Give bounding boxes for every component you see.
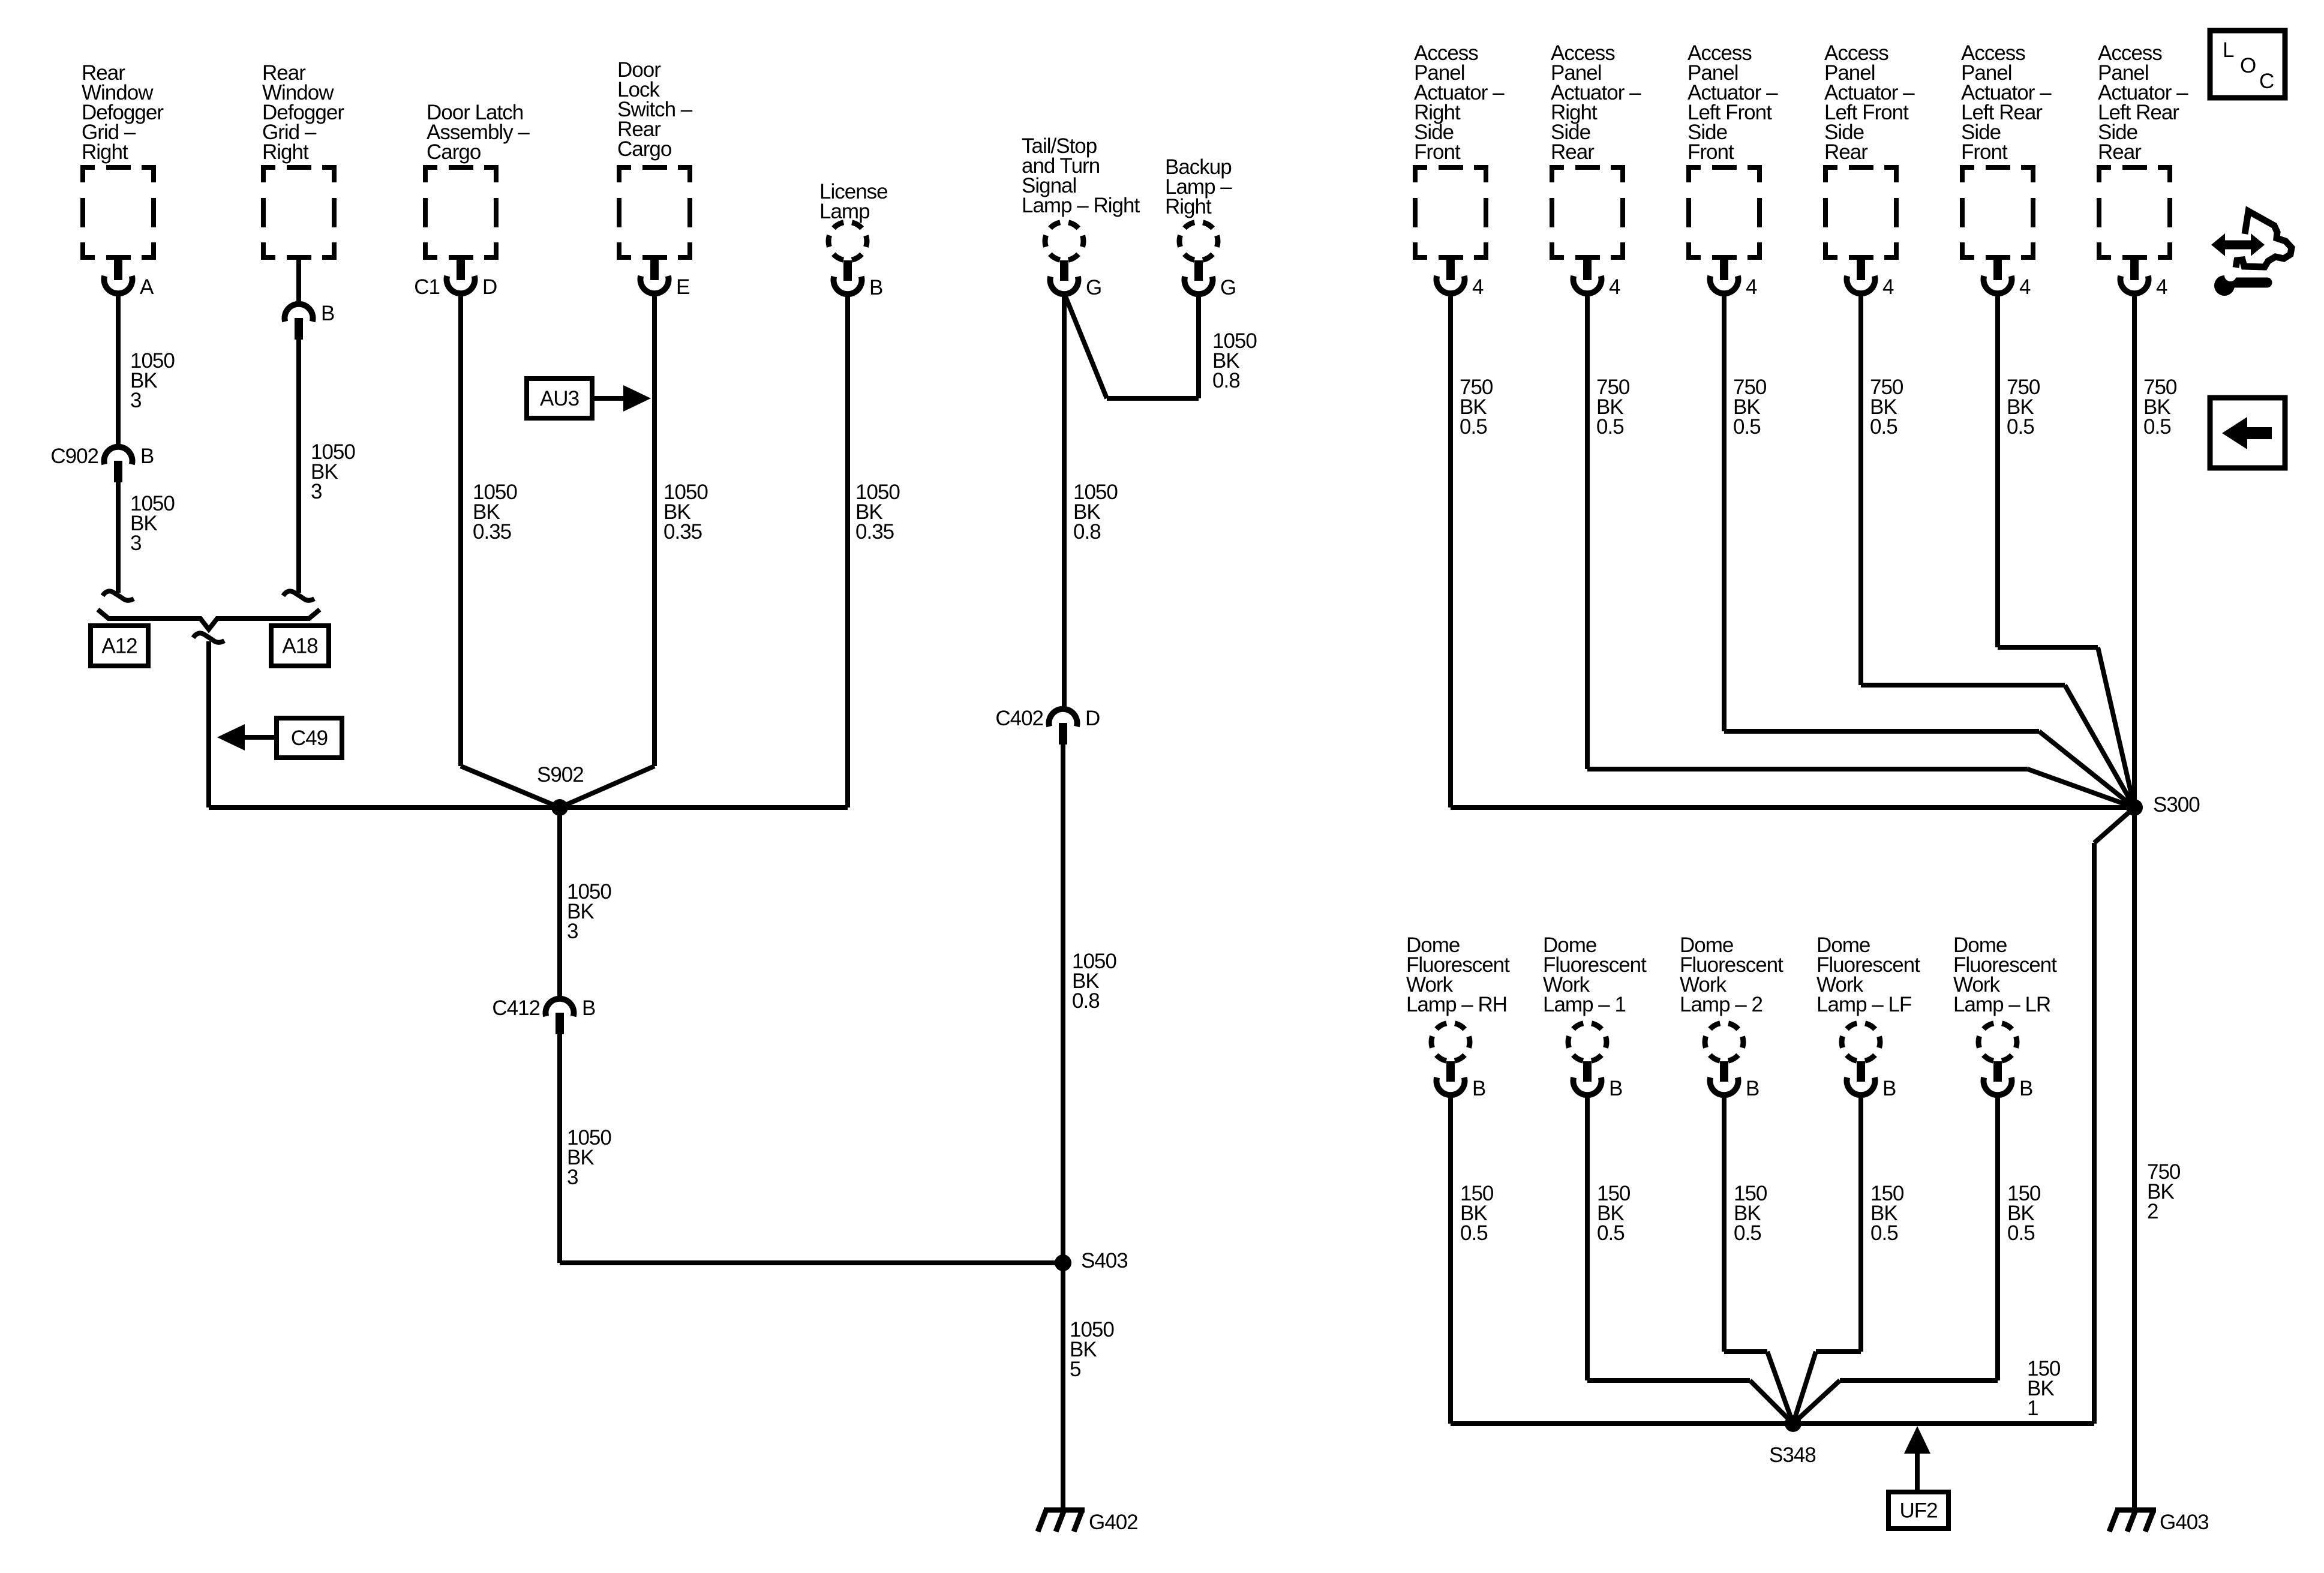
wire: dome LF down [1858,1095,1863,1352]
wire: diagonal into S902 from door lock [560,766,654,807]
svg-text:C1: C1 [414,275,440,299]
svg-text:B: B [2019,1077,2032,1100]
label: Access Panel Actuator - Left Rear Side Rear [2098,41,2188,164]
svg-text:4: 4 [2156,275,2167,299]
wire label 1050 0.35 [663,481,708,544]
svg-text:0.8: 0.8 [1212,369,1240,392]
wire label 150 0.5 [1870,1182,1904,1245]
wire label 1050 0.8 [1212,329,1257,392]
pin 4: access panel actuator 4 [1847,260,1894,299]
svg-text:B: B [321,302,334,325]
wire label 1050 0.35 [855,481,900,544]
lamp circle: Dome Fluorescent Work Lamp - LR [1978,1023,2017,1061]
wire: actuator 2 horizontal [1587,767,2028,772]
wire label 750 0.5 [1460,376,1493,439]
svg-text:Lamp – 2: Lamp – 2 [1680,993,1762,1016]
wire: diagonal into S300 from below [2094,807,2134,843]
svg-text:A: A [140,275,154,299]
svg-text:Front: Front [1414,140,1461,164]
wire label 1050 0.8 [1072,950,1116,1013]
pin G: backup lamp [1185,260,1236,299]
wire label 750 0.5 [1870,376,1903,439]
svg-text:E: E [676,275,689,299]
label: Access Panel Actuator - Right Side Front [1414,41,1505,164]
svg-text:0.8: 0.8 [1072,989,1100,1013]
svg-text:0.5: 0.5 [1460,1221,1488,1245]
svg-text:AU3: AU3 [540,387,579,410]
splice S348 [1785,1415,1801,1432]
wire: backup lamp G down [1196,293,1201,398]
connector pin B: defogger grid 2 [285,302,335,340]
wire: C902 to break A12 [116,481,121,593]
wire: diagonal from tail/stop G [1064,293,1107,398]
pin B: dome work lamp RH [1437,1061,1486,1100]
component box: Rear Window Defogger Grid - Right (2) [261,165,337,260]
svg-text:0.5: 0.5 [1460,415,1487,439]
wire: dome LR horizontal [1840,1378,1998,1383]
component box: Access Panel Actuator - Right Side Rear [1550,165,1625,260]
wire: C402 to G402 through S403 [1061,745,1065,1508]
svg-text:D: D [1085,707,1100,730]
component box: Access Panel Actuator - Left Front Side Rear [1823,165,1899,260]
svg-text:C412: C412 [492,996,540,1020]
svg-text:0.8: 0.8 [1073,520,1101,544]
wire: dome 2 down [1722,1095,1727,1352]
wire: actuator 4 diagonal into S300 [2065,685,2134,807]
svg-text:3: 3 [311,480,322,503]
svg-text:Lamp – RH: Lamp – RH [1406,993,1507,1016]
svg-text:O: O [2240,54,2256,77]
wire: dome LR diagonal into S348 [1793,1380,1840,1424]
label: Rear Window Defogger Grid - Right (2) [262,61,344,164]
pin 4: access panel actuator 2 [1574,260,1621,299]
svg-text:Rear: Rear [2098,140,2142,164]
svg-text:4: 4 [1472,275,1484,299]
wire: S348 up to S300 [2092,843,2097,1424]
svg-text:Lamp: Lamp [819,200,870,223]
connector C902 pin B [50,445,154,482]
splice S300 [2126,799,2143,816]
svg-text:0.5: 0.5 [1733,415,1761,439]
legend back-arrow box [2210,398,2285,468]
svg-text:B: B [869,276,882,299]
label: Rear Window Defogger Grid - Right (1) [82,61,164,164]
svg-text:0.5: 0.5 [1870,1221,1898,1245]
component box: Access Panel Actuator - Right Side Front [1413,165,1488,260]
svg-text:C902: C902 [50,445,98,468]
wire label 1050 3 [311,440,355,503]
callout box UF2 [1888,1492,1948,1529]
wire label 150 0.5 [1734,1182,1767,1245]
splice S403 [1055,1254,1071,1271]
svg-text:C: C [2259,70,2274,93]
svg-text:G: G [1220,276,1236,299]
wire: actuator 1 horizontal into S300 [1451,805,2134,810]
svg-text:B: B [1609,1077,1622,1100]
svg-text:3: 3 [130,532,141,555]
label: Access Panel Actuator - Left Front Side Front [1688,41,1778,164]
wire label 750 0.5 [1596,376,1630,439]
wire: door lock E down [652,293,657,766]
wire label 150 0.5 [1460,1182,1494,1245]
svg-text:B: B [1882,1077,1896,1100]
wire: S902 horizontal bus [209,805,848,810]
wire: dome 2 diagonal into S348 [1767,1352,1793,1424]
wire label 1050 5 [1070,1318,1114,1381]
connector C412 pin B [492,996,595,1034]
callout box A18 [271,626,329,666]
splice S902 [551,799,568,816]
svg-text:3: 3 [130,389,141,412]
svg-text:L: L [2223,38,2234,62]
wire label 1050 0.35 [473,481,517,544]
callout box A12 [91,626,148,666]
pin G: tail/stop lamp [1050,260,1102,299]
wire: actuator 4 down [1858,293,1863,685]
wire: actuator 3 diagonal into S300 [2039,731,2134,807]
ground G403 [2109,1510,2209,1534]
wire: actuator 3 down [1722,293,1727,731]
pin 4: access panel actuator 6 [2121,260,2168,299]
svg-text:Front: Front [1961,140,2008,164]
wire label 150 0.5 [1597,1182,1631,1245]
wire: horizontal to S403 [560,1260,1063,1265]
svg-text:2: 2 [2147,1200,2158,1223]
wire label 1050 3 [130,492,175,555]
lamp circle: Dome Fluorescent Work Lamp - 2 [1705,1023,1743,1061]
svg-text:4: 4 [1746,275,1757,299]
svg-text:0.5: 0.5 [2143,415,2171,439]
wire: connector B to break A18 [296,340,301,593]
svg-text:Rear: Rear [1824,140,1868,164]
legend car/wrench service icon [2211,211,2292,296]
svg-text:0.5: 0.5 [2007,1221,2035,1245]
wire label 1050 3 [567,1126,611,1189]
wire break above A18 brace [283,591,314,600]
wire: door latch D down [458,293,463,766]
component box: Access Panel Actuator - Left Rear Side Rear [2097,165,2172,260]
svg-text:S403: S403 [1081,1249,1128,1272]
wire label 1050 3 [130,349,175,412]
wire label 1050 3 [567,880,611,943]
label: Door Latch Assembly - Cargo [427,101,530,164]
svg-text:A18: A18 [282,635,317,658]
wire label 150 0.5 [2007,1182,2041,1245]
wire: actuator 5 horizontal [1998,645,2098,650]
pin 4: access panel actuator 3 [1710,260,1758,299]
svg-text:3: 3 [567,1166,578,1189]
lamp circle: Tail/Stop and Turn Signal Lamp - Right [1045,222,1083,260]
svg-text:B: B [582,996,595,1020]
brace joining A12/A18 wires [98,610,320,629]
lamp circle: License Lamp [828,222,867,260]
wire: dome RH down [1448,1095,1453,1424]
wire: dome 1 diagonal into S348 [1750,1380,1793,1424]
svg-text:1: 1 [2027,1397,2038,1420]
wire break below brace [193,633,224,642]
label: Door Lock Switch - Rear Cargo [617,58,693,161]
wire: dome LF horizontal [1816,1349,1861,1354]
pin A: defogger grid 1 [104,260,155,299]
wire: S902 to C412 [557,807,562,1000]
svg-text:Lamp – LF: Lamp – LF [1816,993,1911,1016]
svg-text:Right: Right [262,140,309,164]
lamp circle: Backup Lamp - Right [1179,222,1218,260]
svg-text:0.35: 0.35 [663,520,702,544]
wire: defogger A to C902 [116,293,121,448]
wire: defogger grid 2 to connector B [296,260,301,305]
wire label 750 0.5 [2143,376,2177,439]
label: Backup Lamp - Right [1165,155,1232,218]
lamp circle: Dome Fluorescent Work Lamp - 1 [1568,1023,1607,1061]
svg-text:Right: Right [1165,195,1212,218]
label: Access Panel Actuator - Left Rear Side Front [1961,41,2052,164]
wire: license lamp B down [845,293,850,807]
label: License Lamp [819,180,888,223]
svg-text:4: 4 [2019,275,2031,299]
pin B: license lamp [834,260,883,299]
wire: actuator 3 horizontal [1724,729,2039,734]
wire: actuator 1 down [1448,293,1453,807]
lamp circle: Dome Fluorescent Work Lamp - RH [1431,1023,1470,1061]
pin 4: access panel actuator 5 [1984,260,2031,299]
legend LOC box [2210,31,2285,98]
svg-text:G: G [1086,276,1101,299]
label: Dome Fluorescent Work Lamp - LF [1816,933,1920,1016]
svg-text:0.5: 0.5 [1596,415,1624,439]
wire: dome 1 down [1585,1095,1590,1380]
svg-text:B: B [1472,1077,1485,1100]
label: Tail/Stop and Turn Signal Lamp - Right [1022,134,1140,217]
wire: S348 horizontal bus [1451,1421,2094,1426]
component box: Door Latch Assembly - Cargo [423,165,499,260]
component box: Access Panel Actuator - Left Front Side Front [1686,165,1762,260]
lamp circle: Dome Fluorescent Work Lamp - LF [1842,1023,1880,1061]
callout box C49 [277,718,342,758]
arrow from C49 box pointing left [217,724,277,751]
wire: horizontal to backup lamp [1107,396,1199,401]
wire label 750 2 [2147,1160,2181,1223]
wire: C412 to S403 horizontal [557,1033,562,1263]
svg-text:C49: C49 [291,727,328,750]
wire label 1050 0.8 [1073,481,1118,544]
svg-text:G403: G403 [2160,1511,2209,1534]
pin D / connector C1: door latch [447,260,497,299]
svg-text:Right: Right [82,140,128,164]
wire: actuator 2 diagonal into S300 [2028,769,2134,807]
svg-text:C402: C402 [995,707,1043,730]
svg-text:0.5: 0.5 [2007,415,2034,439]
arrow from AU3 box pointing right [592,385,651,412]
svg-text:S348: S348 [1769,1443,1816,1467]
wire break above A12 brace [103,591,134,600]
svg-text:4: 4 [1882,275,1894,299]
label: Dome Fluorescent Work Lamp - LR [1953,933,2057,1016]
svg-text:UF2: UF2 [1899,1499,1937,1523]
wire: actuator 2 down [1585,293,1590,769]
svg-text:Front: Front [1688,140,1734,164]
connector C402 pin D [995,707,1100,745]
label: Dome Fluorescent Work Lamp - RH [1406,933,1510,1016]
wire label 750 0.5 [2007,376,2040,439]
svg-text:B: B [1746,1077,1759,1100]
wire label 150 1 [2027,1357,2061,1420]
wire: actuator 5 down [1995,293,2000,647]
svg-text:0.5: 0.5 [1734,1221,1761,1245]
component box: Door Lock Switch - Rear Cargo [617,165,692,260]
pin B: dome work lamp 1 [1574,1061,1623,1100]
pin B: dome work lamp 2 [1710,1061,1759,1100]
wire: brace to S902 horizontal [206,641,211,807]
svg-text:0.35: 0.35 [473,520,511,544]
label: Dome Fluorescent Work Lamp - 1 [1543,933,1647,1016]
wire label 750 0.5 [1733,376,1767,439]
component box: Access Panel Actuator - Left Rear Side Front [1960,165,2035,260]
svg-text:Rear: Rear [1551,140,1595,164]
wire: dome LR down [1995,1095,2000,1380]
pin 4: access panel actuator 1 [1437,260,1484,299]
component box: Rear Window Defogger Grid - Right (1) [80,165,156,260]
callout box AU3 [527,379,592,418]
pin E: door lock switch [641,260,690,299]
svg-text:S902: S902 [537,763,584,786]
pin B: dome work lamp LR [1984,1061,2033,1100]
arrow from UF2 box pointing up [1904,1426,1930,1492]
ground G402 [1038,1510,1138,1534]
svg-text:3: 3 [567,920,578,943]
svg-text:G402: G402 [1089,1511,1138,1534]
wire: actuator 6 / S300 to G403 [2132,293,2137,1508]
svg-text:Lamp – 1: Lamp – 1 [1543,993,1626,1016]
svg-text:A12: A12 [101,635,137,658]
pin B: dome work lamp LF [1847,1061,1896,1100]
svg-text:B: B [140,445,154,468]
label: Dome Fluorescent Work Lamp - 2 [1680,933,1783,1016]
svg-text:D: D [482,275,497,299]
svg-text:Lamp – Right: Lamp – Right [1022,194,1140,217]
svg-text:5: 5 [1070,1358,1080,1381]
wire: diagonal into S902 from door latch [461,766,560,807]
wire: dome 1 horizontal [1587,1378,1750,1383]
svg-text:Lamp – LR: Lamp – LR [1953,993,2050,1016]
wire: tail/stop G to C402 [1062,293,1067,710]
svg-text:4: 4 [1609,275,1620,299]
label: Access Panel Actuator - Right Side Rear [1551,41,1641,164]
svg-text:Cargo: Cargo [617,137,671,161]
wire: actuator 4 horizontal [1861,683,2065,688]
svg-text:0.35: 0.35 [855,520,894,544]
wire: actuator 5 diagonal into S300 [2098,647,2134,807]
wire: dome LF diagonal into S348 [1793,1352,1816,1424]
svg-text:0.5: 0.5 [1597,1221,1625,1245]
label: Access Panel Actuator - Left Front Side Rear [1824,41,1915,164]
svg-text:Cargo: Cargo [427,140,481,164]
wire: dome 2 horizontal [1724,1349,1767,1354]
svg-text:S300: S300 [2153,793,2200,816]
svg-text:0.5: 0.5 [1870,415,1897,439]
